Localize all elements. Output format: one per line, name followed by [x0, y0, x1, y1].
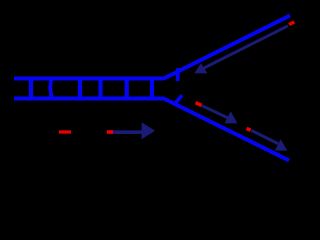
okazaki fragment 1 shaft	[202, 106, 229, 119]
leading strand arrow shaft	[204, 26, 288, 68]
wire top rail (parental strand 1, double helix region)	[14, 77, 164, 81]
okazaki fragment 2 primer (red)	[247, 128, 251, 130]
okazaki fragment 1 arrowhead	[224, 111, 237, 123]
rung 5 (base pair)	[125, 77, 129, 100]
okazaki fragment 2 shaft	[251, 130, 278, 143]
leading strand arrowhead	[194, 63, 207, 73]
rung 3 (base pair)	[78, 77, 82, 100]
legend primer dash 1 (red)	[59, 130, 71, 133]
rung 4 (base pair)	[98, 77, 102, 100]
wire upper branch (leading strand template)	[164, 16, 290, 79]
upper broken rung stub	[176, 68, 180, 81]
rung 6 (base pair)	[150, 77, 154, 100]
okazaki fragment 2 arrowhead	[275, 139, 288, 151]
legend arrow shaft	[113, 130, 143, 134]
wire lower branch (lagging strand template)	[164, 99, 289, 161]
wire bottom rail (parental strand 2, double helix region)	[14, 97, 164, 101]
leading strand primer (red)	[289, 22, 294, 25]
replication fork diagram	[0, 0, 300, 178]
okazaki fragment 1 primer (red)	[196, 103, 202, 106]
legend primer dash 2 (red)	[107, 130, 114, 134]
rung 1 (base pair)	[29, 77, 33, 100]
legend arrowhead	[142, 122, 155, 139]
rung 2 (base pair, slight wobble)	[50, 77, 52, 100]
lower broken rung stub	[175, 95, 182, 104]
